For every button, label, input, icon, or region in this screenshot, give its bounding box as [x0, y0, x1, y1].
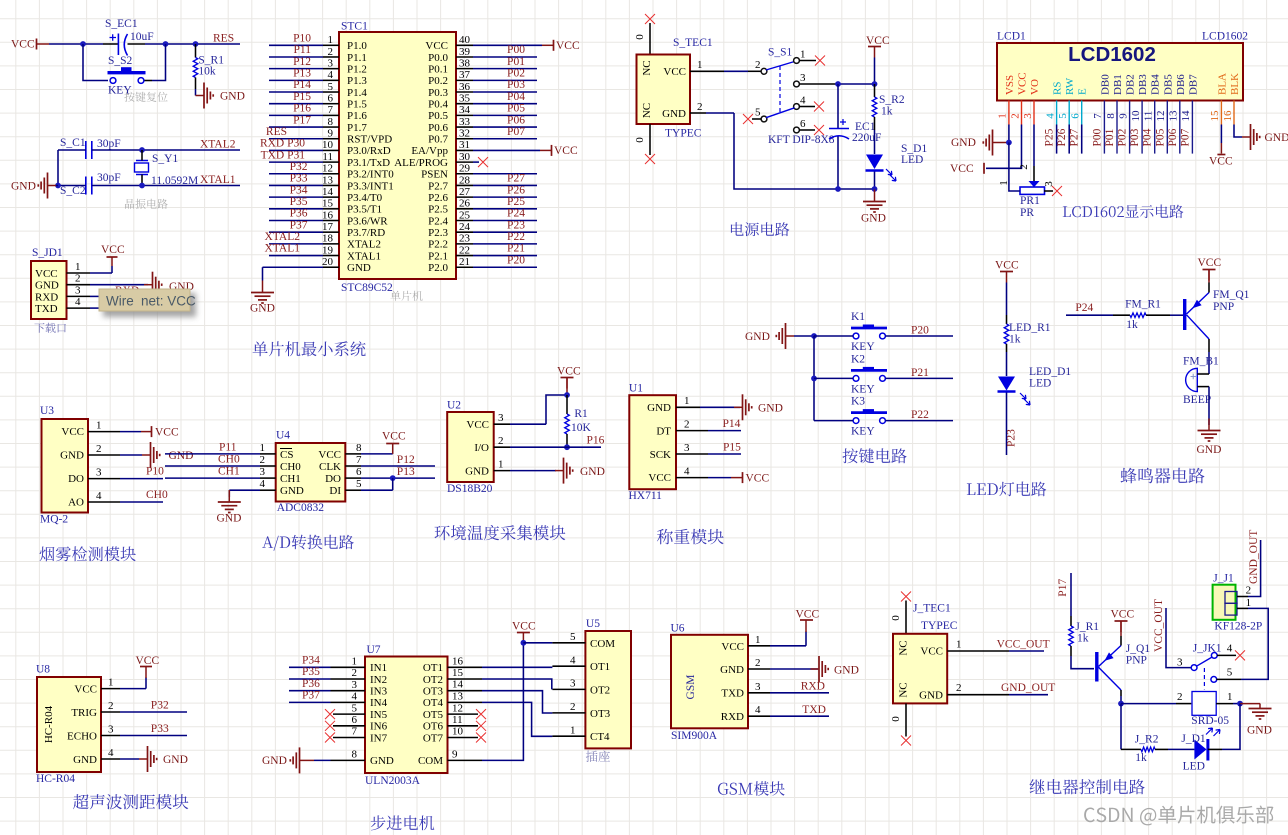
svg-text:4: 4	[328, 69, 334, 81]
caption 下载口	[34, 323, 65, 333]
svg-text:U7: U7	[367, 644, 381, 656]
no-connect pot pin3	[1052, 186, 1062, 196]
svg-text:VCC: VCC	[425, 40, 448, 52]
svg-text:TYPEC: TYPEC	[665, 128, 702, 140]
svg-text:DB7: DB7	[1187, 74, 1199, 95]
svg-text:P07: P07	[507, 126, 525, 138]
svg-text:15: 15	[452, 667, 464, 679]
svg-text:1: 1	[328, 34, 334, 46]
svg-text:R1: R1	[574, 408, 588, 420]
svg-text:P23: P23	[507, 219, 525, 231]
svg-text:XTAL2: XTAL2	[347, 239, 381, 251]
pin 18 (XTAL2)	[269, 243, 323, 245]
svg-text:P02: P02	[1117, 128, 1129, 146]
svg-text:CH0: CH0	[146, 489, 168, 501]
svg-text:11: 11	[452, 714, 463, 726]
pin 32 (P0.7)	[456, 138, 473, 140]
pin 4 wire to VCC	[676, 477, 708, 479]
svg-text:P11: P11	[294, 44, 312, 56]
pin 2 wire to gnd	[748, 668, 770, 670]
relay J_JK1 SRD-05 coil	[1192, 692, 1216, 716]
junction key bus K1	[811, 333, 817, 339]
no-connect (J_TEC1 top)	[901, 592, 911, 602]
svg-text:5: 5	[570, 631, 576, 643]
pin 7 (P1.6)	[269, 114, 323, 116]
svg-text:1: 1	[108, 677, 114, 689]
svg-text:K3: K3	[851, 396, 865, 408]
wire LED_R1 to LED_D1	[1006, 352, 1008, 376]
wire pin20 to ground	[262, 267, 264, 280]
svg-text:14: 14	[452, 679, 464, 691]
svg-text:P2.4: P2.4	[428, 215, 448, 227]
svg-text:VCC: VCC	[950, 163, 974, 175]
svg-text:5: 5	[1227, 667, 1233, 679]
svg-text:STC89C52: STC89C52	[341, 282, 393, 294]
svg-text:VCC: VCC	[101, 244, 125, 256]
wire K3 to P22	[886, 420, 954, 422]
junction coil node	[1118, 701, 1124, 707]
ground (download)	[144, 284, 152, 286]
pin 2 wire to GND_OUT	[1237, 596, 1248, 598]
svg-text:P06: P06	[507, 114, 525, 126]
pin 33 (P0.6)	[456, 126, 473, 128]
caption 电源电路	[731, 222, 789, 236]
svg-text:P25: P25	[507, 196, 525, 208]
svg-text:26: 26	[459, 198, 471, 210]
svg-text:11: 11	[1143, 111, 1155, 122]
svg-text:3: 3	[684, 442, 690, 454]
resistor J_R2	[1121, 748, 1141, 750]
svg-text:4: 4	[352, 691, 358, 703]
pin 1 (P1.0)	[269, 44, 323, 46]
svg-text:38: 38	[459, 57, 471, 69]
wire VCC to reset node	[49, 43, 103, 45]
svg-text:J_R1: J_R1	[1075, 621, 1099, 633]
resistor FM_R1	[1113, 314, 1130, 316]
pin 2 wire GND_OUT	[947, 694, 1009, 696]
no-connect throw 4	[1235, 650, 1245, 660]
relay throw 5	[1211, 677, 1217, 683]
svg-text:VCC: VCC	[35, 268, 58, 280]
switch gang dashed link	[779, 66, 781, 113]
svg-text:VCC_OUT: VCC_OUT	[997, 639, 1050, 651]
svg-text:PR: PR	[1020, 207, 1034, 219]
svg-text:RST/VPD: RST/VPD	[347, 134, 392, 146]
svg-text:1k: 1k	[1009, 334, 1021, 346]
svg-text:P24: P24	[507, 208, 525, 220]
pin 28 (P2.7)	[456, 184, 473, 186]
wire crystal bottom lead	[141, 175, 143, 186]
svg-text:P25: P25	[1044, 128, 1056, 146]
switch contact 6	[794, 127, 800, 133]
relay pin1 wire to gnd	[1216, 703, 1233, 705]
wire K2 left	[814, 377, 853, 379]
svg-text:16: 16	[452, 655, 464, 667]
svg-text:1: 1	[956, 639, 962, 651]
pin 4 wire P37	[289, 701, 331, 703]
svg-text:P10: P10	[146, 466, 164, 478]
caption GSM模块	[718, 781, 785, 796]
svg-text:P1.0: P1.0	[347, 40, 367, 52]
led LED_D1	[998, 377, 1015, 391]
junction node right of S_EC1	[163, 41, 169, 47]
svg-text:GND: GND	[1247, 725, 1272, 737]
pin 1 wire to switch	[690, 70, 724, 72]
svg-text:J_Q1: J_Q1	[1126, 643, 1151, 655]
wire FM_R1 to base	[1170, 314, 1183, 316]
no-connect (J_TEC1 bottom)	[901, 736, 911, 746]
wire S_S2 right leg	[145, 80, 153, 82]
svg-text:30pF: 30pF	[97, 172, 121, 184]
svg-text:P21: P21	[507, 243, 525, 255]
wire pin1 to VCC	[90, 272, 112, 274]
power port VCC (download)	[111, 257, 113, 266]
pin 30 (ALE/PROG)	[456, 161, 473, 163]
pin 34 (P0.5)	[456, 114, 473, 116]
svg-text:10: 10	[1130, 110, 1142, 122]
svg-text:5: 5	[328, 81, 334, 93]
ground (relay)	[1240, 703, 1260, 705]
svg-text:IN3: IN3	[370, 686, 388, 698]
svg-text:GND_OUT: GND_OUT	[1001, 682, 1055, 694]
svg-text:3: 3	[498, 412, 504, 424]
pin 1 wire to gnd	[676, 406, 700, 408]
svg-text:0: 0	[890, 615, 902, 621]
pin 14 wire to OT3	[448, 690, 483, 692]
svg-text:28: 28	[459, 174, 471, 186]
svg-text:GND: GND	[220, 91, 245, 103]
svg-text:LCD1602: LCD1602	[1068, 43, 1156, 66]
pin 13 wire to CT4	[448, 701, 483, 703]
svg-text:P3.5/T1: P3.5/T1	[347, 204, 382, 216]
junction at EC1 top	[835, 81, 841, 87]
svg-text:GND: GND	[720, 664, 744, 676]
svg-text:P2.3: P2.3	[428, 227, 448, 239]
svg-text:FM_R1: FM_R1	[1125, 298, 1161, 310]
svg-text:P3.7/RD: P3.7/RD	[347, 227, 385, 239]
ground (U2)	[555, 470, 563, 472]
junction XTAL2/crystal	[139, 147, 145, 153]
svg-text:13: 13	[452, 690, 464, 702]
svg-text:VSS: VSS	[1004, 75, 1016, 95]
svg-text:RXD: RXD	[801, 681, 825, 693]
svg-text:6: 6	[356, 466, 362, 478]
svg-text:S_Y1: S_Y1	[152, 153, 178, 165]
wire J_R1 to base	[1071, 656, 1094, 669]
svg-text:net: VCC: net: VCC	[141, 294, 196, 309]
pin 13 (P3.3/INT1)	[269, 184, 323, 186]
pin 4 wire to gnd	[101, 758, 120, 760]
ground (mcu)	[262, 281, 264, 293]
svg-text:2: 2	[956, 682, 962, 694]
caption 烟雾检测模块	[40, 546, 136, 561]
wire pot pin3 stub	[1044, 190, 1053, 192]
pin 2 wire to GND	[88, 454, 120, 456]
wire caps common leg	[57, 150, 59, 186]
svg-text:SRD-05: SRD-05	[1191, 715, 1229, 727]
svg-text:2: 2	[260, 454, 266, 466]
led J_D1	[1194, 740, 1206, 760]
svg-text:BEEP: BEEP	[1183, 394, 1211, 406]
svg-text:GND: GND	[1197, 444, 1222, 456]
svg-text:P0.5: P0.5	[428, 110, 448, 122]
svg-text:LED: LED	[901, 154, 923, 166]
svg-text:DB3: DB3	[1137, 74, 1149, 95]
caption 超声波测距模块	[73, 794, 188, 809]
pin 4	[67, 307, 91, 309]
pin 0 top stub J_TEC1	[905, 601, 907, 634]
pin 23 (P2.2)	[456, 243, 473, 245]
svg-text:CH1: CH1	[280, 473, 301, 485]
svg-text:10k: 10k	[198, 66, 216, 78]
pin 3 wire (CH1)	[165, 477, 260, 479]
svg-text:LED_D1: LED_D1	[1029, 366, 1071, 378]
svg-text:4: 4	[1227, 643, 1233, 655]
svg-text:GND: GND	[1265, 132, 1288, 144]
svg-text:0: 0	[634, 137, 646, 143]
svg-text:0: 0	[634, 34, 646, 40]
svg-text:P14: P14	[293, 79, 311, 91]
svg-text:14: 14	[1180, 110, 1192, 122]
wire key bus vertical	[813, 336, 815, 421]
svg-text:SIM900A: SIM900A	[671, 730, 718, 742]
svg-text:8: 8	[352, 748, 358, 760]
svg-text:GND: GND	[347, 262, 371, 274]
svg-text:J_JK1: J_JK1	[1193, 643, 1222, 655]
svg-text:S_R2: S_R2	[879, 94, 905, 106]
svg-text:4: 4	[684, 466, 690, 478]
svg-text:P2.0: P2.0	[428, 262, 448, 274]
wire emitter to VCC	[1120, 636, 1122, 646]
svg-text:P0.3: P0.3	[428, 87, 448, 99]
svg-text:KEY: KEY	[851, 341, 875, 353]
svg-text:P37: P37	[290, 219, 308, 231]
wire K1 to P20	[886, 335, 954, 337]
wire gnd to key bus	[794, 335, 814, 337]
svg-text:2: 2	[1246, 585, 1252, 597]
svg-text:GND: GND	[169, 450, 194, 462]
pin 0 top stub S_TEC1	[649, 23, 651, 55]
pin 15 wire to OT2	[448, 678, 483, 680]
ground (U4)	[228, 490, 230, 502]
svg-text:P16: P16	[293, 103, 311, 115]
power port VCC (pin40)	[542, 44, 553, 46]
ground (U8)	[139, 758, 147, 760]
svg-text:DT: DT	[656, 425, 671, 437]
svg-text:P24: P24	[1075, 302, 1093, 314]
svg-text:NC: NC	[641, 103, 653, 118]
svg-text:P26: P26	[1056, 128, 1068, 146]
svg-text:ADC0832: ADC0832	[277, 502, 325, 514]
svg-text:13: 13	[1168, 110, 1180, 122]
svg-text:P11: P11	[219, 442, 237, 454]
svg-text:P0.6: P0.6	[428, 122, 448, 134]
pin 1 wire P34	[289, 666, 331, 668]
svg-text:2: 2	[352, 667, 358, 679]
ground (U1)	[734, 406, 742, 408]
wire buzzer to gnd	[1208, 387, 1210, 425]
led S_D1	[866, 155, 883, 170]
pin 29 (PSEN)	[456, 173, 473, 175]
svg-text:1k: 1k	[1077, 633, 1089, 645]
svg-text:VCC: VCC	[155, 427, 179, 439]
svg-text:U5: U5	[586, 618, 600, 630]
svg-text:6: 6	[800, 118, 806, 130]
transistor J_Q1 PNP	[1095, 652, 1098, 682]
svg-text:6: 6	[328, 93, 334, 105]
svg-text:CT4: CT4	[590, 731, 610, 743]
svg-text:3: 3	[352, 679, 358, 691]
svg-text:P1.7: P1.7	[347, 122, 367, 134]
svg-text:P20: P20	[507, 254, 525, 266]
svg-text:12: 12	[452, 702, 463, 714]
pin 4 (OT1)	[552, 665, 585, 667]
svg-text:P35: P35	[302, 666, 320, 678]
svg-text:3: 3	[755, 681, 761, 693]
svg-text:KFT DIP-8X8: KFT DIP-8X8	[768, 134, 835, 146]
pin 1 wire to VCC	[101, 688, 120, 690]
svg-text:CS: CS	[280, 449, 293, 461]
svg-text:P00: P00	[507, 44, 525, 56]
svg-text:22: 22	[459, 244, 470, 256]
svg-text:GND: GND	[60, 450, 84, 462]
svg-text:7: 7	[352, 726, 358, 738]
svg-text:1: 1	[352, 656, 358, 668]
pin 1 wire (CS/P11)	[165, 453, 260, 455]
svg-text:I/O: I/O	[474, 442, 489, 454]
svg-text:OT5: OT5	[423, 709, 444, 721]
svg-text:PNP: PNP	[1126, 655, 1147, 667]
svg-text:KF128-2P: KF128-2P	[1214, 621, 1262, 633]
svg-text:P1.5: P1.5	[347, 99, 367, 111]
svg-text:OT2: OT2	[590, 684, 610, 696]
svg-text:RXD: RXD	[35, 291, 58, 303]
svg-text:10uF: 10uF	[130, 31, 154, 43]
svg-text:HC-R04: HC-R04	[43, 705, 55, 743]
caption 步进电机	[371, 815, 435, 830]
pin 4 (P1.3)	[269, 79, 323, 81]
svg-text:RES: RES	[266, 126, 287, 138]
svg-text:9: 9	[328, 128, 334, 140]
svg-text:GND: GND	[951, 137, 976, 149]
svg-text:XTAL1: XTAL1	[200, 174, 236, 186]
svg-text:30pF: 30pF	[97, 138, 121, 150]
svg-text:1k: 1k	[881, 106, 893, 118]
svg-text:8: 8	[356, 442, 362, 454]
svg-text:VCC: VCC	[995, 260, 1019, 272]
svg-text:LED: LED	[1029, 378, 1051, 390]
svg-text:P15: P15	[293, 91, 311, 103]
svg-text:VCC: VCC	[920, 646, 943, 658]
svg-text:GND: GND	[163, 754, 188, 766]
svg-text:ULN2003A: ULN2003A	[365, 775, 421, 787]
svg-text:P32: P32	[290, 161, 308, 173]
svg-text:18: 18	[322, 233, 334, 245]
junction relay pin1	[1237, 701, 1243, 707]
svg-text:OT2: OT2	[423, 674, 443, 686]
svg-text:OT3: OT3	[423, 686, 444, 698]
pin 38 (P0.1)	[456, 68, 473, 70]
junction at S_R1 top	[193, 41, 199, 47]
svg-text:4: 4	[96, 490, 102, 502]
svg-text:2: 2	[328, 46, 334, 58]
wire lcd pin1 to gnd	[1008, 125, 1010, 143]
svg-text:39: 39	[459, 46, 471, 58]
pin 1 wire to VCC	[748, 645, 770, 647]
pin 2 wire P35	[289, 678, 331, 680]
pin 40 (VCC)	[456, 44, 473, 46]
svg-text:GND: GND	[217, 513, 242, 525]
svg-text:PR1: PR1	[1020, 195, 1040, 207]
svg-text:S_EC1: S_EC1	[105, 18, 138, 30]
svg-text:3: 3	[75, 284, 81, 296]
svg-text:LED: LED	[1183, 761, 1205, 773]
pin 8 wire to VCC	[345, 453, 361, 455]
switch contact 4	[794, 104, 800, 110]
svg-text:2: 2	[755, 59, 761, 71]
svg-text:RXD P30: RXD P30	[260, 138, 305, 150]
svg-text:VCC: VCC	[11, 39, 35, 51]
svg-text:3: 3	[328, 57, 334, 69]
svg-text:2: 2	[75, 273, 81, 285]
svg-text:GND: GND	[580, 466, 605, 478]
pin 6 (P1.5)	[269, 103, 323, 105]
svg-text:P16: P16	[587, 435, 605, 447]
svg-text:P34: P34	[302, 655, 320, 667]
svg-text:40: 40	[459, 34, 471, 46]
pin 2 (P1.1)	[269, 56, 323, 58]
svg-text:P04: P04	[507, 91, 525, 103]
wire XTAL1 net	[58, 185, 86, 187]
svg-text:P12: P12	[397, 454, 415, 466]
svg-text:2: 2	[1177, 691, 1183, 703]
wire pin2 to GND	[90, 284, 148, 286]
pin 11 stub with no-connect	[448, 725, 479, 727]
caption 环境温度采集模块	[434, 525, 565, 540]
junction XTAL1/crystal	[139, 183, 145, 189]
svg-text:U1: U1	[629, 383, 643, 395]
svg-text:P3.0/RxD: P3.0/RxD	[347, 145, 391, 157]
svg-text:XTAL2: XTAL2	[200, 139, 236, 151]
wire K3 left	[814, 420, 853, 422]
pin 1 wire VCC_OUT	[947, 650, 1009, 652]
svg-text:GSM: GSM	[685, 675, 697, 700]
svg-text:GND: GND	[758, 403, 783, 415]
svg-text:CH0: CH0	[280, 461, 301, 473]
pin 12 (P3.2/INT0)	[269, 173, 323, 175]
svg-text:TXD: TXD	[721, 688, 744, 700]
ground (reset)	[196, 95, 204, 97]
wire RES net	[196, 43, 240, 45]
svg-text:PSEN: PSEN	[421, 169, 448, 181]
caption 称重模块	[657, 529, 724, 544]
led J_D1 emission arrows	[1206, 728, 1213, 735]
svg-text:FM_Q1: FM_Q1	[1213, 289, 1250, 301]
wire EC1 bottom	[837, 137, 839, 190]
svg-text:DO: DO	[68, 473, 84, 485]
pin 3 wire P10	[88, 478, 120, 480]
svg-text:VCC: VCC	[74, 684, 97, 696]
svg-text:11: 11	[322, 151, 333, 163]
svg-text:CH0: CH0	[218, 454, 240, 466]
svg-text:P1.3: P1.3	[347, 75, 367, 87]
svg-text:8: 8	[1105, 113, 1117, 119]
ground (crystal)	[48, 185, 56, 187]
svg-text:P14: P14	[723, 418, 741, 430]
svg-text:10: 10	[322, 139, 334, 151]
svg-text:P20: P20	[911, 325, 929, 337]
svg-text:DB4: DB4	[1150, 74, 1162, 95]
